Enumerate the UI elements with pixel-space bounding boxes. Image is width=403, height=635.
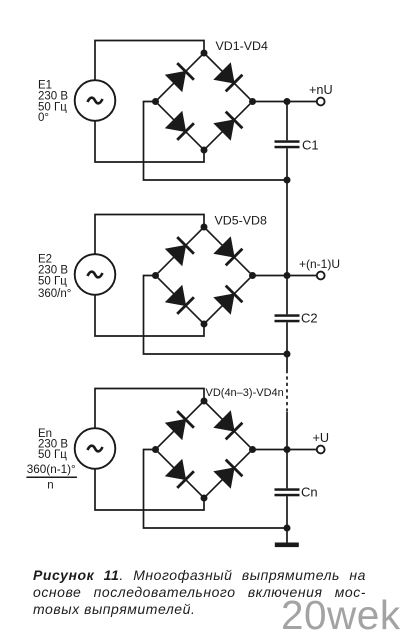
svg-text:360/n°: 360/n° <box>38 288 71 300</box>
wire: bus C2 top lead <box>286 276 288 315</box>
node: bus junction below C1 <box>284 177 291 184</box>
svg-text:n: n <box>47 480 53 492</box>
svg-text:50 Гц: 50 Гц <box>38 276 67 288</box>
node: bus junction below Cn <box>284 525 291 532</box>
svg-text:C2: C2 <box>301 311 318 326</box>
diode VD2 <box>214 63 242 91</box>
wire: bridge 3 diamond <box>156 401 253 498</box>
svg-text:360(n-1)°: 360(n-1)° <box>27 463 76 476</box>
wire: bus stage1 to stage2 <box>286 180 288 276</box>
terminal +(n-1)U <box>317 272 325 280</box>
svg-text:C1: C1 <box>302 138 319 153</box>
diode VD6 <box>214 237 242 265</box>
wire: bridge 3 minus (left node) to bus <box>144 450 288 529</box>
node: bus junction at +nU line <box>284 98 291 105</box>
label En value (with fraction 360(n-1)°/n) <box>26 428 77 492</box>
diode VD5 <box>166 237 194 265</box>
node: bridge 3 right <box>249 446 256 453</box>
diode VD7 <box>166 286 194 314</box>
svg-text:Cn: Cn <box>301 485 318 500</box>
wire: bus Cn bottom lead <box>286 496 288 528</box>
node: bridge 1 left <box>152 98 159 105</box>
wire: bus C1 bottom lead <box>286 148 288 180</box>
caption line 1 <box>33 567 366 584</box>
wire: source E2 bottom lead to bridge bottom node <box>95 295 204 336</box>
terminal +U <box>317 446 325 454</box>
label E2 value <box>38 254 71 301</box>
AC source E1 <box>75 80 116 121</box>
svg-text:0°: 0° <box>38 112 49 124</box>
node: bridge 3 bottom <box>201 495 208 502</box>
node: bridge 1 right <box>249 98 256 105</box>
node: bridge 3 left <box>152 446 159 453</box>
label E1 value <box>38 80 68 125</box>
diode VD4n <box>214 460 242 488</box>
wire: source E1 top lead to bridge top node <box>95 41 204 81</box>
svg-text:+U: +U <box>313 431 330 445</box>
svg-text:50 Гц: 50 Гц <box>38 449 67 461</box>
wire: bridge 2 plus (right node) to terminal +(n-1)U <box>253 275 317 277</box>
diode VD8 <box>214 286 242 314</box>
wire: bridge 1 plus (right node) to terminal +nU <box>253 101 317 103</box>
node: bus junction at +U line <box>284 446 291 453</box>
node: bridge 2 bottom <box>201 321 208 328</box>
capacitor Cn <box>275 488 300 496</box>
wire: bridge 1 diamond <box>156 53 253 150</box>
AC source En <box>75 428 116 469</box>
node: bridge 2 left <box>152 272 159 279</box>
diode VD4 <box>214 112 242 140</box>
capacitor C2 <box>275 314 300 322</box>
wire: source E2 top lead to bridge top node <box>95 215 204 255</box>
wire: bridge 1 minus (left node) to bus <box>144 102 288 181</box>
watermark 20wek <box>281 592 401 635</box>
node: bus junction at +(n-1)U line <box>284 272 291 279</box>
diode VD(4n-3) <box>166 411 194 439</box>
caption line 3 <box>33 601 366 618</box>
svg-text:VD1-VD4: VD1-VD4 <box>216 39 268 53</box>
node: bus junction below C2 <box>284 351 291 358</box>
ground <box>275 543 299 548</box>
svg-text:VD(4n–3)-VD4n: VD(4n–3)-VD4n <box>206 387 284 399</box>
wire: source E1 bottom lead to bridge bottom node <box>95 121 204 162</box>
capacitor C1 <box>275 140 300 148</box>
node: bridge 2 top <box>201 224 208 231</box>
caption line 2 <box>33 584 366 601</box>
node: bridge 3 top <box>201 398 208 405</box>
wire: bus C1 top lead <box>286 102 288 141</box>
AC source E2 <box>75 254 116 295</box>
wire: bridge 2 diamond <box>156 227 253 324</box>
svg-text:VD5-VD8: VD5-VD8 <box>215 214 267 228</box>
wire: source En bottom lead to bridge bottom node <box>95 469 204 510</box>
svg-text:+nU: +nU <box>309 83 333 97</box>
node: bridge 2 right <box>249 272 256 279</box>
wire: bridge 3 plus (right node) to terminal +U <box>253 449 317 451</box>
diode VD(4n-1) <box>166 460 194 488</box>
wire: bus to ground <box>286 528 288 543</box>
wire: bus continuation (dashed) <box>286 370 288 412</box>
wire: bus into stage3 (solid) <box>286 412 288 450</box>
wire: bus C2 bottom lead <box>286 322 288 354</box>
diode VD3 <box>166 112 194 140</box>
terminal +nU <box>317 98 325 106</box>
node: bridge 1 bottom <box>201 147 208 154</box>
wire: bridge 2 minus (left node) to bus <box>144 276 288 355</box>
diode VD(4n-2) <box>214 411 242 439</box>
wire: bus Cn top lead <box>286 450 288 489</box>
wire: source En top lead to bridge top node <box>95 389 204 429</box>
wire: bus stage2 down (solid) <box>286 354 288 370</box>
diode VD1 <box>166 63 194 91</box>
node: bridge 1 top <box>201 50 208 57</box>
svg-text:+(n-1)U: +(n-1)U <box>299 257 340 271</box>
